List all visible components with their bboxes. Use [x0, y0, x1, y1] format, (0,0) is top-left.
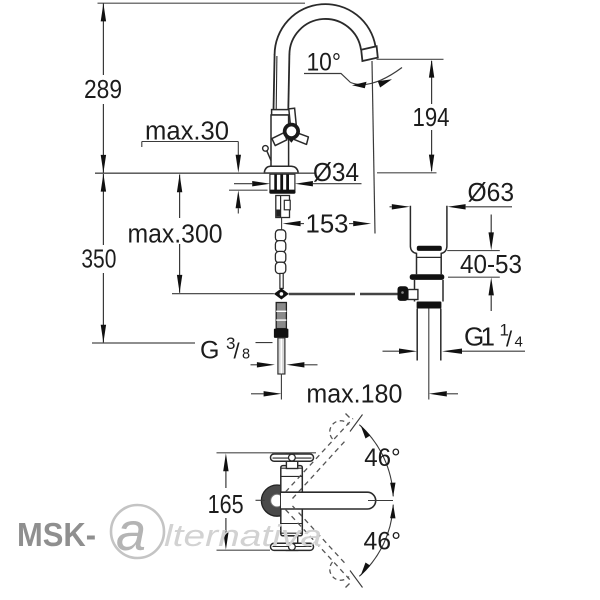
nut dark bar 1 — [274, 175, 277, 191]
body slab (plan) — [281, 466, 303, 536]
drain thread band — [417, 302, 442, 309]
lower hose segment — [276, 303, 286, 329]
aerator nozzle band — [361, 46, 378, 61]
ghost handle upper dashed line A — [286, 419, 354, 493]
supply hose link 3 — [275, 251, 285, 262]
svg-text:Ø34: Ø34 — [313, 159, 359, 187]
bottom handle bar seam — [273, 546, 312, 548]
G3/8 arrows — [251, 364, 258, 366]
top handle block (plan) — [286, 454, 297, 469]
handle hub inner circle — [287, 126, 297, 136]
drain body right wall — [442, 280, 444, 302]
tailpipe left wall — [416, 309, 418, 361]
svg-text:Ø63: Ø63 — [468, 179, 515, 207]
collar below riser — [272, 110, 290, 115]
top handle bar seam — [273, 457, 312, 459]
valve body column — [271, 115, 289, 167]
svg-text:165: 165 — [208, 489, 244, 519]
mounting deck line — [95, 172, 316, 174]
slab seam 2 — [281, 475, 303, 477]
dimension Ø34 arrows — [234, 183, 252, 185]
350 bottom reference line — [92, 342, 195, 344]
lower arc arrowhead top — [390, 504, 395, 518]
dimension 194 line — [431, 61, 433, 104]
slab seam 1 — [281, 467, 303, 469]
water stream reference line — [372, 61, 375, 234]
slab seam 3 — [281, 523, 303, 525]
linkage knurled knob — [398, 286, 409, 301]
svg-text:4: 4 — [515, 334, 523, 351]
spout axis dash right — [368, 500, 393, 502]
linkage rod right segment a — [289, 293, 355, 296]
swivel arc under nozzle — [351, 68, 403, 85]
svg-text:G: G — [200, 337, 219, 365]
swivel arc left arrowhead — [352, 82, 367, 88]
linkage pivot joint diamond — [274, 288, 289, 299]
upper arc arrowhead bottom — [390, 483, 395, 497]
dimension 153 — [283, 221, 301, 226]
svg-text:G1: G1 — [464, 322, 495, 352]
lower hose seam 1 — [276, 310, 286, 312]
svg-text:MSK-: MSK- — [17, 517, 96, 554]
dimension 289 line — [102, 3, 104, 75]
drain cup left wall — [410, 206, 416, 274]
shank connector block — [276, 196, 290, 218]
svg-text:max.180: max.180 — [306, 381, 402, 409]
dimension max.180 — [251, 393, 264, 395]
nut dark bar 2 — [280, 175, 283, 191]
handle hub shading wedge — [285, 134, 299, 143]
ghost handle upper dashed line B — [293, 441, 346, 499]
ghost handle lower dashed line A — [286, 510, 353, 583]
shank side square — [284, 200, 290, 210]
svg-text:max.300: max.300 — [128, 221, 223, 249]
svg-text:8: 8 — [242, 347, 250, 363]
svg-text:350: 350 — [81, 246, 116, 274]
linkage rod right segment b — [360, 293, 398, 296]
svg-text:289: 289 — [84, 76, 122, 104]
G1 1/4 arrows — [383, 350, 400, 352]
drain gasket band — [410, 274, 445, 280]
upper arc extension line — [350, 415, 363, 432]
svg-text:/: / — [234, 339, 241, 364]
upper arc arrowhead top — [361, 425, 371, 439]
faucet axis segment — [281, 218, 283, 230]
pop-up rod link — [267, 151, 271, 161]
hose neck — [280, 273, 283, 288]
46 degree upper arc — [359, 425, 393, 497]
dimension max.300 line — [179, 175, 181, 219]
bottom handle block (plan) — [286, 536, 297, 551]
165 bottom reference line — [217, 549, 271, 551]
base escutcheon dome — [264, 166, 298, 173]
supply hose link 2 — [275, 241, 285, 252]
spout plan view — [281, 492, 376, 509]
top handle circle — [289, 454, 296, 461]
46 degree lower arc — [359, 505, 393, 577]
hose end black cap — [274, 329, 289, 338]
supply hose link 4 — [275, 262, 285, 273]
top reference line — [98, 2, 306, 4]
ghost handle upper end arc — [330, 421, 349, 439]
G3/8 leader line — [256, 342, 273, 344]
spout riser tube left wall — [274, 54, 275, 110]
lower arc arrowhead bottom — [361, 563, 371, 577]
dimension 194 top reference — [377, 58, 444, 60]
escutcheon ring (plan) — [261, 485, 292, 516]
svg-text:/: / — [506, 327, 513, 352]
G3/8 supply tube — [278, 338, 285, 374]
handle hub dark ring — [283, 123, 300, 140]
spout riser tube inner wall line — [275, 56, 278, 110]
drain body left wall — [414, 280, 416, 302]
bottom handle bar (plan) — [271, 543, 314, 550]
ghost handle lower end arc — [330, 562, 349, 580]
svg-text:46°: 46° — [364, 527, 402, 555]
swivel arc right arrowhead — [378, 79, 392, 87]
drain axis line — [428, 309, 430, 400]
watermark circle — [111, 505, 164, 558]
knob highlight — [401, 291, 404, 294]
svg-text:a: a — [116, 502, 146, 562]
drain side port — [408, 290, 418, 300]
165 top reference line — [217, 452, 317, 454]
drain cup right wall — [441, 206, 447, 274]
nut washer band — [269, 190, 295, 194]
tailpipe right wall — [440, 309, 442, 361]
svg-text:153: 153 — [306, 211, 349, 239]
top handle bar (plan) — [271, 454, 314, 461]
pop-up rod knob — [263, 146, 269, 152]
spout gooseneck outer arc — [275, 4, 376, 54]
dimension 350 line — [102, 174, 104, 245]
svg-text:194: 194 — [413, 104, 450, 132]
handle right spoke — [294, 132, 308, 144]
supply tube inner highlight — [280, 339, 282, 374]
drain plug top band — [417, 246, 442, 251]
dimension 194 bottom reference (deck level right) — [377, 172, 437, 174]
supply hose link 1 — [275, 230, 285, 241]
shank inner seam — [280, 196, 282, 218]
dimension 40-53 — [447, 250, 500, 252]
spout riser tube right wall — [288, 54, 289, 110]
handle left spoke — [272, 133, 287, 146]
faucet axis lower segment — [280, 374, 282, 400]
slab seam 4 — [281, 532, 303, 534]
svg-text:lternativa: lternativa — [164, 518, 322, 553]
dimension 165 line — [225, 471, 227, 488]
spout gooseneck inner arc — [289, 19, 361, 55]
shank dark detail — [277, 210, 281, 217]
deck underside reference line — [229, 189, 268, 191]
nut dark bar 3 — [286, 175, 289, 191]
lower hose seam 2 — [276, 319, 286, 321]
bottom handle circle — [289, 543, 296, 550]
lower arc extension line — [350, 571, 363, 588]
svg-text:40-53: 40-53 — [460, 251, 522, 279]
10 degree leader underline — [304, 74, 351, 83]
pop-up linkage rod (left thin) — [172, 293, 274, 295]
dimension Ø63 arrows — [390, 206, 392, 208]
mounting nut below deck — [270, 174, 295, 190]
svg-text:46°: 46° — [364, 444, 401, 472]
handle upper spoke — [289, 108, 296, 125]
pivot joint center dot — [280, 292, 284, 296]
drain waist seam — [417, 256, 442, 258]
ghost handle lower dashed line B — [293, 506, 346, 564]
svg-text:10°: 10° — [307, 49, 342, 77]
spout axis dash left — [256, 499, 265, 501]
